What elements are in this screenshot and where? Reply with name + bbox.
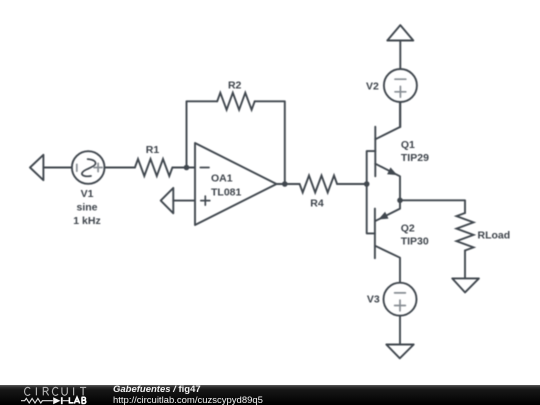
V1 plus sign xyxy=(94,163,102,171)
wire feedback up xyxy=(187,101,218,165)
transistor Q1 bar xyxy=(374,127,376,177)
svg-text:TIP30: TIP30 xyxy=(401,236,429,248)
wire base up to Q1 xyxy=(367,151,376,184)
V2 plus sign xyxy=(395,86,406,97)
svg-text:V3: V3 xyxy=(367,294,380,306)
svg-text:sine: sine xyxy=(76,201,97,213)
wire R1 to op-amp minus input xyxy=(172,167,195,169)
flag VEE down xyxy=(386,345,413,359)
resistor R2 xyxy=(217,93,255,110)
wire RLoad down xyxy=(464,251,466,279)
flag IN (left of V1) xyxy=(30,155,43,180)
op-amp minus sign xyxy=(200,167,209,169)
svg-text:OA1: OA1 xyxy=(211,172,233,184)
Q2 collector xyxy=(375,246,400,283)
Q1 emitter xyxy=(375,164,400,201)
V3 plus sign xyxy=(395,300,406,311)
node base junction xyxy=(364,181,370,187)
wire V1 to R1 xyxy=(105,167,135,169)
wire output to RLoad xyxy=(400,200,465,213)
wire flag to plus input xyxy=(173,200,195,202)
wire R2 down to output xyxy=(255,101,285,184)
node output emitters xyxy=(397,198,403,204)
svg-text:R4: R4 xyxy=(310,198,324,210)
op-amp OA1 triangle xyxy=(195,143,277,225)
wire base down to Q2 xyxy=(367,184,375,233)
wire R4 to bases xyxy=(337,183,367,185)
flag ground RLoad xyxy=(452,278,479,292)
Q2 emitter arrow xyxy=(378,212,388,220)
transistor Q2 bar xyxy=(374,209,376,259)
resistor RLoad xyxy=(457,213,474,251)
V2 minus sign xyxy=(395,78,406,80)
V1 sine squiggle xyxy=(82,159,96,176)
wire flag to V2 xyxy=(399,41,401,70)
svg-text:1 kHz: 1 kHz xyxy=(73,215,100,227)
svg-text:V2: V2 xyxy=(366,80,379,92)
flag VCC up xyxy=(387,25,413,40)
Q1 emitter arrow xyxy=(387,167,397,175)
svg-text:R1: R1 xyxy=(146,144,160,156)
node at inverting input xyxy=(184,165,190,171)
Q1 collector xyxy=(375,102,400,139)
V1 minus sign xyxy=(76,164,78,171)
wire V1 left xyxy=(43,167,71,169)
svg-text:Q2: Q2 xyxy=(401,222,415,234)
svg-text:TL081: TL081 xyxy=(211,187,242,199)
resistor R1 xyxy=(135,159,173,176)
flag at non-inverting input xyxy=(161,188,174,213)
svg-text:TIP29: TIP29 xyxy=(401,152,429,164)
CircuitLab logo xyxy=(0,385,110,405)
V3 minus sign xyxy=(395,292,406,294)
resistor R4 xyxy=(300,176,338,193)
wire op-amp output xyxy=(277,183,300,185)
svg-text:Q1: Q1 xyxy=(401,139,415,151)
op-amp plus sign xyxy=(201,196,210,205)
footer bar xyxy=(0,385,540,405)
wire V2 to Q1 collector xyxy=(399,102,401,127)
svg-text:RLoad: RLoad xyxy=(478,229,511,241)
svg-text:V1: V1 xyxy=(81,188,94,200)
source V3 xyxy=(384,283,417,316)
wire V3 to flag xyxy=(399,316,401,345)
Q2 emitter xyxy=(375,200,400,221)
source V1 xyxy=(72,151,105,184)
source V2 xyxy=(384,69,417,102)
svg-text:R2: R2 xyxy=(228,79,242,91)
node output/feedback xyxy=(282,181,288,187)
